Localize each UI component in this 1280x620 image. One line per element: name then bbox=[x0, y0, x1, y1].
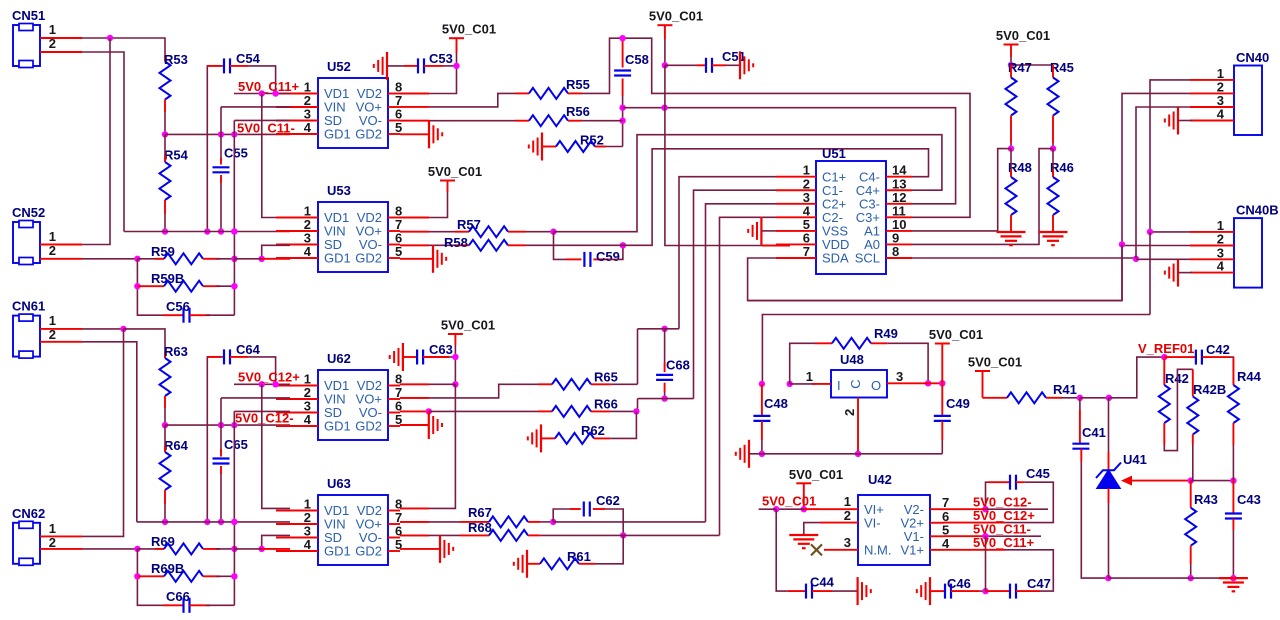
svg-text:R63: R63 bbox=[164, 344, 188, 359]
svg-text:5V0_C11+: 5V0_C11+ bbox=[973, 535, 1034, 550]
svg-text:5V0_C01: 5V0_C01 bbox=[929, 327, 983, 342]
svg-text:R55: R55 bbox=[566, 77, 590, 92]
svg-text:5V0_C01: 5V0_C01 bbox=[996, 28, 1050, 43]
svg-text:CN40B: CN40B bbox=[1236, 203, 1279, 218]
svg-text:R44: R44 bbox=[1237, 369, 1262, 384]
svg-text:5V0_C12+: 5V0_C12+ bbox=[238, 370, 300, 385]
svg-text:CN40: CN40 bbox=[1236, 50, 1269, 65]
svg-text:C64: C64 bbox=[236, 342, 261, 357]
svg-text:R49: R49 bbox=[874, 326, 898, 341]
svg-text:CN52: CN52 bbox=[12, 205, 45, 220]
svg-text:3: 3 bbox=[844, 535, 851, 550]
svg-text:1: 1 bbox=[49, 313, 56, 328]
svg-text:C41: C41 bbox=[1082, 425, 1106, 440]
svg-text:C46: C46 bbox=[947, 576, 971, 591]
svg-text:5V0_C01: 5V0_C01 bbox=[428, 164, 482, 179]
svg-text:C44: C44 bbox=[810, 575, 835, 590]
svg-text:4: 4 bbox=[304, 412, 312, 427]
svg-text:1: 1 bbox=[844, 494, 851, 509]
svg-text:7: 7 bbox=[803, 244, 810, 259]
svg-text:C48: C48 bbox=[764, 396, 788, 411]
svg-text:2: 2 bbox=[842, 409, 857, 416]
svg-text:R61: R61 bbox=[567, 549, 591, 564]
svg-text:U51: U51 bbox=[822, 146, 846, 161]
svg-text:GD1: GD1 bbox=[324, 419, 351, 434]
svg-text:SCL: SCL bbox=[855, 251, 880, 266]
svg-text:2: 2 bbox=[844, 508, 851, 523]
svg-text:C54: C54 bbox=[236, 51, 261, 66]
svg-text:U63: U63 bbox=[327, 476, 351, 491]
svg-text:V_REF01: V_REF01 bbox=[1138, 341, 1194, 356]
svg-text:C49: C49 bbox=[946, 396, 970, 411]
svg-text:1: 1 bbox=[806, 369, 813, 384]
svg-text:4: 4 bbox=[304, 120, 312, 135]
svg-text:1: 1 bbox=[49, 229, 56, 244]
svg-text:5V0_C01: 5V0_C01 bbox=[762, 494, 816, 509]
svg-text:5V0_C11-: 5V0_C11- bbox=[237, 121, 295, 136]
svg-text:GD2: GD2 bbox=[355, 544, 382, 559]
svg-text:C56: C56 bbox=[166, 299, 190, 314]
svg-text:C47: C47 bbox=[1027, 576, 1051, 591]
svg-text:VI-: VI- bbox=[864, 515, 881, 530]
svg-text:R59B: R59B bbox=[151, 271, 184, 286]
svg-text:C68: C68 bbox=[666, 358, 690, 373]
svg-text:R64: R64 bbox=[164, 438, 189, 453]
svg-text:R65: R65 bbox=[594, 370, 618, 385]
svg-text:C53: C53 bbox=[429, 51, 453, 66]
svg-text:CN61: CN61 bbox=[12, 299, 45, 314]
svg-text:C65: C65 bbox=[224, 437, 248, 452]
svg-text:4: 4 bbox=[1217, 107, 1225, 122]
svg-text:R58: R58 bbox=[444, 235, 468, 250]
svg-text:N.M.: N.M. bbox=[864, 543, 891, 558]
svg-text:C42: C42 bbox=[1206, 342, 1230, 357]
svg-text:C45: C45 bbox=[1026, 466, 1050, 481]
svg-text:V1+: V1+ bbox=[901, 543, 925, 558]
svg-text:R57: R57 bbox=[457, 217, 481, 232]
svg-text:I: I bbox=[837, 378, 841, 393]
svg-text:GD1: GD1 bbox=[324, 251, 351, 266]
svg-text:U41: U41 bbox=[1123, 452, 1147, 467]
svg-text:GD2: GD2 bbox=[355, 419, 382, 434]
svg-text:2: 2 bbox=[1217, 232, 1224, 247]
svg-text:R53: R53 bbox=[164, 52, 188, 67]
svg-text:5V0_C12-: 5V0_C12- bbox=[235, 411, 294, 426]
svg-text:4: 4 bbox=[1217, 259, 1225, 274]
svg-text:C59: C59 bbox=[596, 249, 620, 264]
svg-text:3: 3 bbox=[896, 369, 903, 384]
svg-text:5V0_C01: 5V0_C01 bbox=[442, 22, 496, 37]
svg-text:GD1: GD1 bbox=[324, 544, 351, 559]
svg-text:1: 1 bbox=[49, 22, 56, 37]
svg-text:8: 8 bbox=[892, 244, 899, 259]
svg-text:R56: R56 bbox=[566, 104, 590, 119]
svg-text:R67: R67 bbox=[468, 505, 492, 520]
svg-text:C63: C63 bbox=[429, 342, 453, 357]
svg-text:C58: C58 bbox=[625, 52, 649, 67]
svg-text:R41: R41 bbox=[1053, 382, 1077, 397]
svg-text:GD2: GD2 bbox=[355, 251, 382, 266]
svg-text:GD1: GD1 bbox=[324, 127, 351, 142]
svg-text:R66: R66 bbox=[594, 397, 618, 412]
svg-text:U62: U62 bbox=[327, 351, 351, 366]
svg-text:5: 5 bbox=[395, 120, 402, 135]
svg-text:U53: U53 bbox=[327, 183, 351, 198]
svg-text:CN51: CN51 bbox=[12, 8, 45, 23]
svg-text:R68: R68 bbox=[468, 520, 492, 535]
svg-text:4: 4 bbox=[304, 244, 312, 259]
svg-text:U42: U42 bbox=[868, 472, 892, 487]
svg-text:O: O bbox=[871, 378, 881, 393]
svg-text:R52: R52 bbox=[580, 133, 604, 148]
svg-text:5V0_C01: 5V0_C01 bbox=[968, 355, 1022, 370]
svg-text:C51: C51 bbox=[722, 49, 746, 64]
svg-text:GD2: GD2 bbox=[355, 127, 382, 142]
svg-text:CN62: CN62 bbox=[12, 506, 45, 521]
svg-text:5V0_C01: 5V0_C01 bbox=[441, 318, 495, 333]
svg-text:C: C bbox=[848, 379, 863, 388]
svg-text:U48: U48 bbox=[840, 352, 864, 367]
svg-text:C43: C43 bbox=[1237, 492, 1261, 507]
svg-text:5V0_C11+: 5V0_C11+ bbox=[238, 79, 299, 94]
svg-text:4: 4 bbox=[942, 536, 950, 551]
svg-text:R42B: R42B bbox=[1193, 382, 1226, 397]
svg-text:SDA: SDA bbox=[822, 251, 849, 266]
svg-text:5V0_C01: 5V0_C01 bbox=[789, 467, 843, 482]
svg-text:U52: U52 bbox=[327, 59, 351, 74]
svg-text:C66: C66 bbox=[166, 589, 190, 604]
svg-text:1: 1 bbox=[49, 521, 56, 536]
svg-text:C62: C62 bbox=[596, 493, 620, 508]
svg-text:R69B: R69B bbox=[151, 561, 184, 576]
svg-text:R43: R43 bbox=[1194, 492, 1218, 507]
svg-text:5V0_C01: 5V0_C01 bbox=[649, 9, 703, 24]
svg-text:C55: C55 bbox=[224, 146, 248, 161]
svg-text:4: 4 bbox=[304, 537, 312, 552]
svg-text:R54: R54 bbox=[164, 148, 189, 163]
